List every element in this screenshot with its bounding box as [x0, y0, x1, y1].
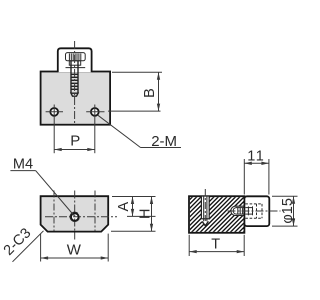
dimension B: arrowheads [157, 72, 160, 111]
dimension A: dim line [132, 197, 134, 217]
plan view: centerline right hole [94, 191, 96, 232]
dimension P: extension lines [54, 105, 95, 154]
dimension T: extension lines [189, 235, 244, 256]
front view: right hole 2-M [91, 108, 99, 116]
front view: screw shaft with threads below block top [71, 61, 78, 96]
dimension A: mid extension line (hole center) [127, 215, 156, 217]
plan view: M4 hole thread arc (major dia) [70, 212, 79, 222]
dimension H: bottom extension line [111, 230, 156, 232]
side view: vertical tapped hole [201, 197, 209, 226]
dimension 11: arrowheads [244, 162, 269, 165]
dimension H: dim line [151, 197, 153, 232]
dimension H: arrowheads [150, 197, 153, 232]
front view: right hole centermark [86, 111, 104, 113]
side view: horizontal centerline of screw [228, 210, 281, 212]
label M4: leader line [36, 171, 74, 216]
svg-text:M4: M4 [13, 156, 33, 172]
front view: left hole 2-M [50, 108, 58, 116]
svg-text:P: P [70, 132, 80, 149]
side view: sectioned block [189, 196, 244, 233]
front view: top bracket [58, 48, 92, 72]
front view: block body [41, 72, 111, 125]
svg-text:2-C3: 2-C3 [1, 225, 35, 259]
svg-text:11: 11 [247, 149, 265, 165]
svg-text:φ15: φ15 [280, 198, 296, 224]
front view: vertical centerline of screw [74, 41, 76, 125]
dimension B: extension lines [108, 72, 162, 111]
svg-text:H: H [138, 209, 154, 219]
dimension 11: extension lines [244, 159, 269, 195]
svg-text:2-M: 2-M [151, 133, 177, 150]
plan view: M4 hole white interior [70, 212, 79, 221]
dimension A: arrowheads [131, 197, 134, 217]
side view: screw end with threads [233, 208, 244, 215]
dimension P: arrowheads [54, 148, 95, 151]
plan view: horizontal centerline through M4 hole [45, 216, 117, 218]
side view: hidden screw lines inside knob [245, 204, 262, 218]
dimension W: arrowheads [41, 256, 109, 259]
dimension W: extension lines [41, 234, 109, 262]
plan view: vertical centerline through M4 hole [74, 191, 76, 240]
svg-text:B: B [142, 88, 158, 98]
label 2-C3: leader line [13, 231, 44, 262]
dimension phi15: extension lines [272, 196, 298, 226]
svg-text:A: A [116, 202, 132, 212]
svg-text:T: T [211, 236, 220, 252]
front view: left hole centermark [46, 111, 63, 113]
front view: knob head hidden inside bracket [66, 53, 86, 68]
side view: knob phi15 [244, 196, 269, 226]
plan view: block outline with chamfered bottom corners [41, 196, 109, 231]
label 2-M: underline [141, 147, 182, 149]
plan view: centerline left hole [53, 191, 55, 232]
dimension T: arrowheads [189, 250, 244, 253]
label 2-M: leader line [98, 115, 141, 147]
plan view: M4 hole bold circle (minor dia) [71, 213, 79, 221]
side view: horizontal screw hole in section [231, 206, 245, 215]
side view: vertical hole centerline [204, 189, 206, 221]
dimension phi15: arrowheads [292, 196, 295, 226]
svg-text:W: W [67, 241, 82, 258]
label M4: underline [10, 170, 35, 172]
dimension A and H: shared top extension line [112, 196, 156, 198]
